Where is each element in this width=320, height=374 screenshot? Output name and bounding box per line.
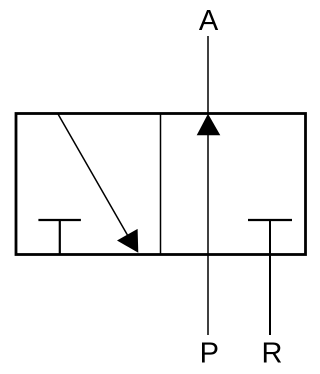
- blocked port symbol (right, R blocked): bar: [248, 219, 292, 221]
- blocked port symbol (left, P blocked): bar: [38, 219, 81, 221]
- wire: port R lead (stem continues to R): [269, 220, 271, 335]
- flow path arrow A to exhaust: arrowhead: [117, 229, 138, 253]
- svg-text:R: R: [262, 338, 283, 370]
- position divider: [160, 114, 162, 255]
- wire: port A lead: [207, 36, 209, 113]
- flow path arrow A to exhaust: shaft: [58, 114, 128, 236]
- flow path arrow P to A: arrowhead: [197, 114, 221, 136]
- flow path arrow P to A: shaft: [207, 134, 209, 335]
- valve body V1 (two-position box): [16, 114, 306, 255]
- svg-text:A: A: [199, 5, 219, 37]
- svg-text:P: P: [200, 338, 219, 370]
- blocked port symbol (left, P blocked): stem: [59, 220, 61, 254]
